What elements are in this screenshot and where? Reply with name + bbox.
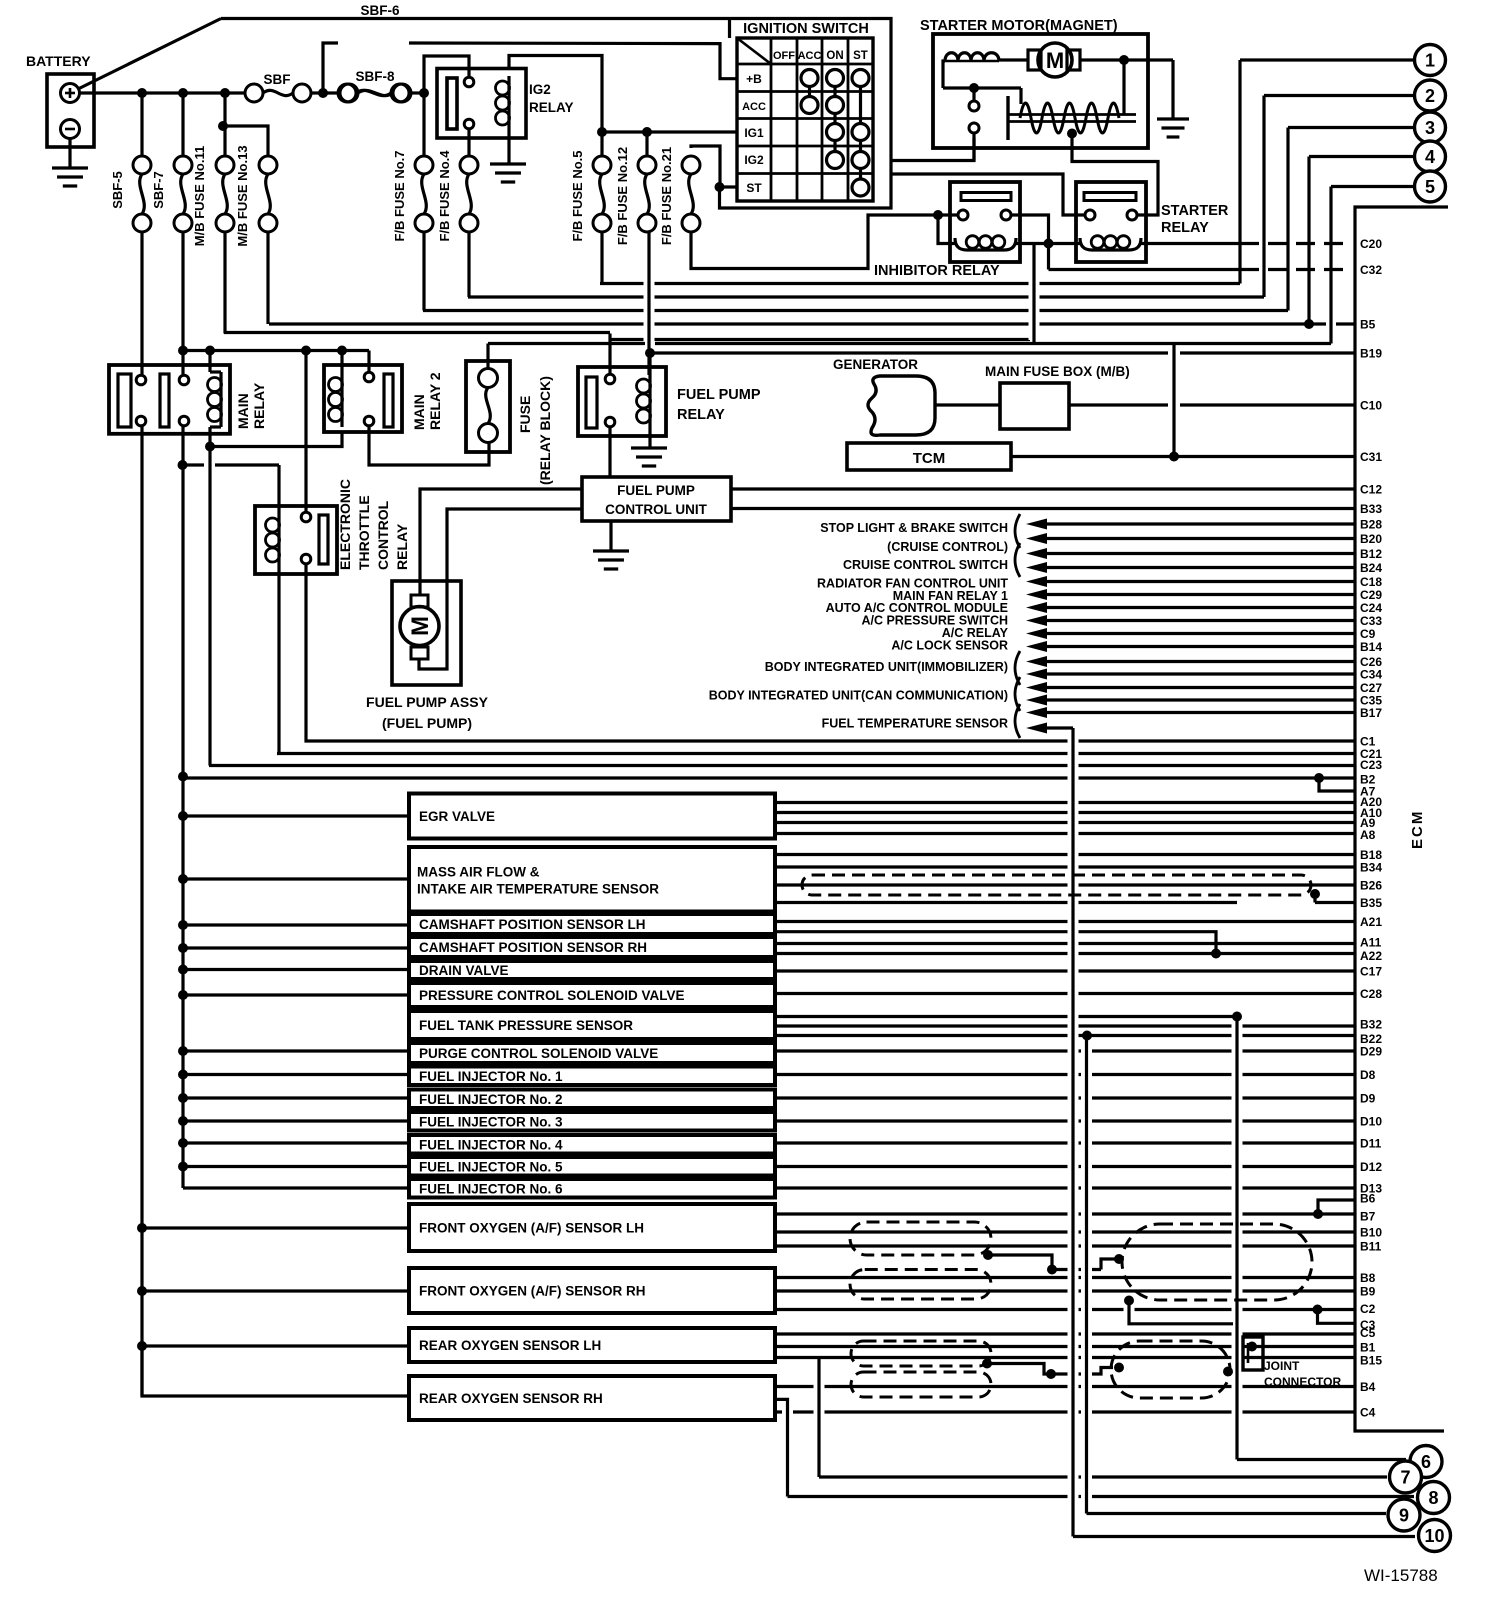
svg-text:SBF: SBF bbox=[264, 72, 291, 87]
svg-text:(CRUISE CONTROL): (CRUISE CONTROL) bbox=[887, 540, 1008, 554]
svg-text:B5: B5 bbox=[1360, 318, 1376, 332]
svg-text:C2: C2 bbox=[1360, 1302, 1376, 1316]
svg-text:C17: C17 bbox=[1360, 965, 1382, 979]
svg-text:6: 6 bbox=[1421, 1452, 1431, 1472]
main relay contact pins bbox=[136, 375, 146, 385]
svg-text:M: M bbox=[1046, 48, 1064, 73]
shield drain jumper rear oxygen ovals bbox=[987, 1364, 1051, 1375]
wire circled 8 line from rear oxygen RH bbox=[788, 1495, 1415, 1498]
wire C17 line from drain valve bbox=[775, 969, 1355, 972]
svg-text:IG2: IG2 bbox=[744, 153, 764, 167]
node circled 10 bbox=[1419, 1520, 1451, 1552]
fuse SBF-6 bbox=[323, 43, 338, 93]
wire front oxygen RH feed bbox=[142, 1289, 409, 1292]
wire D12 line from fuel injector No.5 bbox=[775, 1165, 1355, 1168]
wire EGR valve feed bbox=[183, 814, 409, 817]
svg-text:FUEL TEMPERATURE SENSOR: FUEL TEMPERATURE SENSOR bbox=[822, 717, 1008, 731]
main relay 2 coil bbox=[340, 372, 343, 427]
svg-text:RELAY: RELAY bbox=[1161, 220, 1209, 236]
relay fuel pump relay box bbox=[578, 367, 666, 436]
wire C2 to C3 jog bbox=[1318, 1310, 1356, 1324]
wire D11 line from fuel injector No.4 bbox=[775, 1141, 1355, 1144]
wire main relay 2 right contact riser bbox=[367, 351, 370, 373]
wire fuel pump relay contact feed from main relay net bbox=[608, 334, 611, 375]
wire main relay feed line from M/B fuse No.11 bbox=[224, 331, 610, 334]
svg-text:B26: B26 bbox=[1360, 879, 1382, 893]
svg-text:C31: C31 bbox=[1360, 450, 1382, 464]
wire MAF feed bbox=[183, 877, 409, 880]
fuse SBF-7 bbox=[181, 93, 184, 156]
ETC relay contact pins bbox=[301, 512, 311, 522]
IG2 relay coil bbox=[507, 76, 510, 130]
wire B5 bus line from M/B fuse No.13 bbox=[269, 322, 1326, 325]
wire fuel injector No.5 feed bbox=[183, 1165, 409, 1168]
box fuel injector No.2 bbox=[409, 1090, 775, 1109]
svg-text:B17: B17 bbox=[1360, 706, 1382, 720]
wire fuel pump relay contact to fuel pump control unit bbox=[608, 427, 611, 478]
wire fuel tank pressure sensor top line to shield drain vertical bbox=[775, 1015, 1237, 1018]
svg-text:C5: C5 bbox=[1360, 1326, 1376, 1340]
shield dashed oval rear oxygen upper bbox=[851, 1341, 991, 1366]
wire B2 to A7 jog bbox=[1319, 778, 1355, 791]
shield drain jumper front oxygen ovals bbox=[988, 1255, 1052, 1270]
svg-text:C23: C23 bbox=[1360, 758, 1382, 772]
box mass air flow & intake air temperature sensor bbox=[409, 847, 775, 912]
svg-text:OFF: OFF bbox=[773, 50, 795, 62]
wire B1 line from rear oxygen sensor LH bbox=[775, 1345, 1355, 1348]
svg-text:TCM: TCM bbox=[913, 450, 946, 467]
svg-text:STARTER: STARTER bbox=[1161, 203, 1229, 219]
wire long vertical B22 tap to circled 9 bbox=[1085, 1036, 1088, 1514]
svg-text:B14: B14 bbox=[1360, 640, 1382, 654]
wire fuel pump relay coil riser bbox=[648, 353, 651, 375]
wire vertical rear oxygen RH side stub to circled 8 bbox=[775, 1399, 788, 1496]
wire C12 line fuel pump control unit to ECM bbox=[731, 487, 1355, 490]
starter relay coil bbox=[1080, 238, 1141, 250]
starter motor box bbox=[933, 34, 1148, 148]
svg-text:RELAY: RELAY bbox=[677, 407, 725, 423]
fuse F/B fuse No.12 bbox=[645, 132, 648, 156]
wire inhibitor coil to starter relay coil bbox=[1016, 242, 1080, 245]
wire rear oxygen LH feed bbox=[142, 1344, 409, 1347]
fuel pump relay contact bar bbox=[586, 377, 597, 428]
wire IG1 feed from IG2 relay coil bbox=[509, 56, 602, 133]
svg-text:B9: B9 bbox=[1360, 1285, 1376, 1299]
svg-text:B8: B8 bbox=[1360, 1271, 1376, 1285]
svg-text:F/B FUSE No.5: F/B FUSE No.5 bbox=[570, 150, 585, 241]
wire C20 dashed to ECM bbox=[1240, 242, 1352, 245]
main relay 2 contact pins bbox=[364, 372, 374, 382]
wire C10 line generator to ECM bbox=[1069, 403, 1168, 406]
svg-text:CRUISE CONTROL SWITCH: CRUISE CONTROL SWITCH bbox=[843, 558, 1008, 572]
wire main relay coil bottom to C23 rail bbox=[208, 427, 211, 766]
svg-text:FUEL INJECTOR No. 6: FUEL INJECTOR No. 6 bbox=[419, 1181, 563, 1196]
svg-text:D8: D8 bbox=[1360, 1068, 1376, 1082]
wire B7 to B6 jog bbox=[1318, 1200, 1355, 1214]
wire front shield drain to C3 segment bbox=[1129, 1301, 1233, 1324]
svg-text:+B: +B bbox=[746, 72, 762, 86]
box fuel injector No.3 bbox=[409, 1112, 775, 1131]
fuse F/B fuse No.21 bbox=[691, 146, 720, 187]
wire diagonal battery to ignition switch loop bbox=[78, 19, 221, 90]
wire F/B fuse No.21 to inhibitor relay bbox=[691, 215, 938, 269]
svg-text:SBF-7: SBF-7 bbox=[151, 171, 166, 209]
wire main relay 2 coil riser bbox=[340, 351, 343, 373]
svg-text:D29: D29 bbox=[1360, 1045, 1382, 1059]
svg-text:FRONT OXYGEN (A/F) SENSOR LH: FRONT OXYGEN (A/F) SENSOR LH bbox=[419, 1221, 644, 1236]
wire A8 line from EGR valve bbox=[775, 832, 1355, 835]
wire fuse relay block top to circled 5 and TCM drop bbox=[488, 342, 645, 345]
wire C1 line from electronic throttle control relay contact bbox=[307, 739, 1355, 742]
wire F/B fuse No.7 down to bus bbox=[422, 232, 425, 311]
svg-text:C24: C24 bbox=[1360, 601, 1382, 615]
svg-text:C29: C29 bbox=[1360, 588, 1382, 602]
fuel pump relay contact pins bbox=[605, 374, 615, 384]
fuse SBF bbox=[245, 84, 263, 102]
shield dashed oval rear oxygen right group bbox=[1111, 1341, 1230, 1398]
wire fuel injector No.6 feed bbox=[183, 1186, 409, 1189]
wire to circled 4 bbox=[1309, 155, 1413, 158]
wire B33 line fuel pump control unit to ECM bbox=[731, 507, 1355, 510]
wire main relay coil jumper to main relay 2 coil bbox=[210, 432, 342, 447]
wire inhibitor right contact to C32 net bbox=[1011, 215, 1049, 270]
battery bbox=[47, 74, 94, 147]
svg-text:IG2: IG2 bbox=[529, 82, 551, 97]
wire bus line to circled 1 from F/B fuse No.5 bbox=[600, 282, 1240, 285]
svg-text:CAMSHAFT POSITION SENSOR RH: CAMSHAFT POSITION SENSOR RH bbox=[419, 940, 647, 955]
wire ignition loop branch to starter relay contact bbox=[891, 174, 1085, 215]
wire B2 line from main relay contact rail bbox=[183, 776, 1355, 779]
svg-text:F/B FUSE No.21: F/B FUSE No.21 bbox=[659, 147, 674, 245]
main fuse box (M/B) bbox=[1000, 383, 1069, 429]
wire circled 9 horizontal bbox=[1087, 1512, 1387, 1515]
box fuel injector No.4 bbox=[409, 1135, 775, 1154]
svg-text:1: 1 bbox=[1425, 51, 1435, 71]
wire battery positive main line bbox=[79, 91, 245, 94]
box rear oxygen sensor LH bbox=[409, 1328, 775, 1362]
wire A11 line from camshaft position sensor RH bbox=[775, 942, 1355, 945]
inhibitor relay contact bar bbox=[961, 193, 1011, 201]
wire long vertical shield chain B35 to circled 6 bbox=[1235, 1017, 1238, 1460]
ground battery bbox=[68, 139, 71, 169]
wire circled 7 line from rear oxygen LH B15 tap bbox=[819, 1475, 1387, 1478]
relay starter relay box bbox=[1076, 182, 1146, 262]
svg-text:CONNECTOR: CONNECTOR bbox=[1264, 1375, 1341, 1389]
box purge control solenoid valve bbox=[409, 1043, 775, 1063]
svg-text:BODY INTEGRATED UNIT(IMMOBILIZ: BODY INTEGRATED UNIT(IMMOBILIZER) bbox=[765, 660, 1008, 674]
box pressure control solenoid valve bbox=[409, 983, 775, 1007]
relay inhibitor relay box bbox=[950, 182, 1020, 262]
wire ETC coil bottom to C21 bbox=[277, 566, 280, 754]
svg-text:B15: B15 bbox=[1360, 1354, 1382, 1368]
wire main relay right contact down bbox=[181, 426, 184, 1189]
wire starter relay coil to C20 bbox=[1141, 242, 1240, 245]
svg-text:SBF-8: SBF-8 bbox=[355, 69, 394, 84]
fuel pump control unit box bbox=[582, 477, 731, 521]
generator bbox=[868, 376, 935, 435]
svg-text:GENERATOR: GENERATOR bbox=[833, 357, 918, 372]
svg-text:D11: D11 bbox=[1360, 1137, 1382, 1151]
wire starter motor to ground bbox=[1080, 58, 1173, 61]
wire starter switch feed bbox=[943, 86, 1021, 89]
svg-text:FUEL PUMP: FUEL PUMP bbox=[677, 387, 761, 403]
svg-text:C18: C18 bbox=[1360, 575, 1382, 589]
svg-text:ACC: ACC bbox=[798, 50, 822, 62]
wire C4 line from rear oxygen sensor RH bbox=[775, 1410, 1355, 1413]
wire fuel injector No.2 feed bbox=[183, 1096, 409, 1099]
wire main relay left contact down to oxygen rail bbox=[140, 426, 143, 1397]
svg-text:A11: A11 bbox=[1360, 936, 1382, 950]
box drain valve bbox=[409, 961, 775, 979]
svg-text:B35: B35 bbox=[1360, 896, 1382, 910]
wire SBF-8 to IG2 relay contact bbox=[411, 91, 424, 94]
wire generator to main fuse box bbox=[935, 403, 1000, 406]
svg-text:A22: A22 bbox=[1360, 949, 1382, 963]
svg-text:B34: B34 bbox=[1360, 861, 1382, 875]
inhibitor relay contact pins bbox=[958, 210, 968, 220]
wire ignition switch outer loop bbox=[221, 19, 891, 209]
wire SBF-6 to ignition +B bbox=[409, 43, 737, 79]
wire ETC relay contact riser bbox=[304, 351, 307, 514]
svg-text:A8: A8 bbox=[1360, 828, 1376, 842]
svg-text:B6: B6 bbox=[1360, 1192, 1376, 1206]
svg-text:B24: B24 bbox=[1360, 561, 1382, 575]
fuse M/B fuse No.13 bbox=[223, 126, 268, 156]
wire B19 line from F/B fuse No.12 junction bbox=[650, 351, 1168, 354]
svg-text:FUEL INJECTOR No. 4: FUEL INJECTOR No. 4 bbox=[419, 1137, 563, 1152]
fuel pump relay coil bbox=[648, 375, 651, 427]
node circled 1 bbox=[1415, 45, 1446, 76]
wire M/B fuse No.11 down to bus bbox=[223, 232, 226, 334]
svg-text:ECM: ECM bbox=[1409, 810, 1426, 849]
starter motor M bbox=[1028, 50, 1041, 70]
wire M/B fuse No.13 down to B5 bus bbox=[266, 232, 269, 324]
wire drain valve feed bbox=[183, 968, 409, 971]
svg-text:D12: D12 bbox=[1360, 1160, 1382, 1174]
svg-text:B10: B10 bbox=[1360, 1226, 1382, 1240]
wire to circled 1 bbox=[1240, 58, 1413, 61]
svg-text:FUEL INJECTOR No. 5: FUEL INJECTOR No. 5 bbox=[419, 1159, 563, 1174]
svg-text:B19: B19 bbox=[1360, 347, 1382, 361]
node circled 5 bbox=[1415, 171, 1446, 202]
relay electronic throttle control relay box bbox=[255, 506, 337, 574]
svg-text:CAMSHAFT POSITION SENSOR LH: CAMSHAFT POSITION SENSOR LH bbox=[419, 917, 646, 932]
svg-text:SBF-6: SBF-6 bbox=[360, 3, 399, 18]
wire circled 10 horizontal bbox=[1073, 1535, 1415, 1538]
svg-text:C32: C32 bbox=[1360, 263, 1382, 277]
node circled 2 bbox=[1415, 80, 1446, 111]
box camshaft position sensor LH bbox=[409, 914, 775, 934]
starter pinion shaft bbox=[1006, 96, 1009, 140]
wire vertical F/B fuse No.12 to fuel pump relay coil bbox=[647, 232, 650, 375]
svg-text:MAIN FUSE BOX (M/B): MAIN FUSE BOX (M/B) bbox=[985, 364, 1130, 379]
svg-text:C9: C9 bbox=[1360, 627, 1376, 641]
svg-text:FRONT OXYGEN (A/F) SENSOR RH: FRONT OXYGEN (A/F) SENSOR RH bbox=[419, 1284, 646, 1299]
svg-text:C28: C28 bbox=[1360, 987, 1382, 1001]
wire camshaft RH feed bbox=[183, 946, 409, 949]
svg-text:F/B FUSE No.12: F/B FUSE No.12 bbox=[615, 147, 630, 245]
IG2 relay contact pins bbox=[464, 77, 474, 87]
wire B4 line from rear oxygen sensor RH bbox=[775, 1385, 1355, 1388]
wire D9 line from fuel injector No.2 bbox=[775, 1096, 1355, 1099]
svg-text:IG1: IG1 bbox=[744, 126, 764, 140]
relay main relay 2 box bbox=[324, 365, 402, 432]
svg-text:B28: B28 bbox=[1360, 518, 1382, 532]
svg-text:D9: D9 bbox=[1360, 1092, 1376, 1106]
svg-text:CONTROL UNIT: CONTROL UNIT bbox=[605, 502, 707, 517]
box fuel injector No.6 bbox=[409, 1179, 775, 1198]
wire fuse relay block top riser bbox=[486, 344, 489, 369]
wire starter coil left down bbox=[943, 61, 945, 88]
IG2 relay coil ground bbox=[507, 130, 510, 164]
svg-text:5: 5 bbox=[1425, 177, 1435, 197]
wire A22 line from camshaft position sensor RH bbox=[775, 952, 1355, 955]
node circled 6 bbox=[1410, 1446, 1442, 1478]
svg-text:3: 3 bbox=[1425, 118, 1435, 138]
node circled 4 bbox=[1415, 141, 1446, 172]
shield dashed oval front oxygen LH pair bbox=[850, 1222, 991, 1255]
wire main relay feed line with taps bbox=[183, 349, 369, 352]
node circled 3 bbox=[1415, 112, 1446, 143]
wire D13 line from fuel injector No.6 bbox=[775, 1186, 1355, 1189]
wire B35 line from mass air flow sensor to shield drop bbox=[775, 901, 1237, 904]
wire ETC relay coil feed bbox=[183, 463, 205, 466]
svg-text:MAIN: MAIN bbox=[411, 394, 427, 430]
svg-text:C20: C20 bbox=[1360, 237, 1382, 251]
svg-text:INTAKE AIR TEMPERATURE SENSOR: INTAKE AIR TEMPERATURE SENSOR bbox=[417, 881, 659, 896]
starter motor field coil bbox=[945, 53, 999, 61]
inhibitor relay coil bbox=[955, 238, 1016, 250]
node circled 7 bbox=[1390, 1461, 1422, 1493]
wire B34 line from mass air flow sensor bbox=[775, 865, 1355, 868]
wire C32 dashed to ECM bbox=[1049, 268, 1241, 271]
wire bus line to circled 2 from F/B fuse No.4 bbox=[468, 295, 1264, 298]
svg-text:SBF-5: SBF-5 bbox=[110, 171, 125, 209]
wire B15 line from rear oxygen sensor LH bbox=[775, 1356, 1355, 1359]
svg-text:FUEL INJECTOR No. 1: FUEL INJECTOR No. 1 bbox=[419, 1069, 563, 1084]
svg-text:WI-15788: WI-15788 bbox=[1364, 1566, 1438, 1585]
wire main relay risers bbox=[181, 351, 184, 376]
fuse F/B fuse No.4 bbox=[467, 128, 470, 156]
svg-text:DRAIN VALVE: DRAIN VALVE bbox=[419, 963, 509, 978]
wire B18 line from mass air flow sensor bbox=[775, 853, 1355, 856]
wire SBF-7 rail down to relay feed line bbox=[181, 232, 184, 351]
svg-text:CONTROL: CONTROL bbox=[375, 500, 391, 570]
wire long vertical fuel temperature sensor to circled 10 bbox=[1071, 728, 1074, 1537]
svg-text:B12: B12 bbox=[1360, 547, 1382, 561]
wire C23 line from main relay coil bbox=[209, 764, 1355, 767]
fuse relay block box bbox=[466, 361, 510, 452]
wire C28 line from pressure control solenoid valve bbox=[775, 992, 1355, 995]
svg-text:B1: B1 bbox=[1360, 1341, 1376, 1355]
svg-text:BODY INTEGRATED UNIT(CAN COMMU: BODY INTEGRATED UNIT(CAN COMMUNICATION) bbox=[709, 689, 1008, 703]
wire F/B fuse No.4 down to bus bbox=[467, 232, 470, 297]
svg-text:B4: B4 bbox=[1360, 1380, 1376, 1394]
fuse F/B fuse No.5 bbox=[600, 132, 603, 156]
starter magnet helix bbox=[1020, 103, 1119, 133]
wire B7 line from front oxygen sensor LH bbox=[775, 1212, 1355, 1215]
fuse SBF-5 bbox=[140, 93, 143, 156]
wire D29 line from purge control solenoid valve bbox=[775, 1049, 1355, 1052]
relay main relay box bbox=[109, 365, 230, 434]
fuse M/B fuse No.11 bbox=[223, 93, 226, 156]
box EGR valve bbox=[409, 794, 775, 839]
wire B10 line from front oxygen sensor LH bbox=[775, 1230, 1355, 1233]
wire A9 line from EGR valve bbox=[775, 821, 1355, 824]
wire purge control valve feed bbox=[183, 1049, 409, 1052]
fuse F/B fuse No.7 bbox=[422, 93, 425, 156]
svg-text:A/C LOCK SENSOR: A/C LOCK SENSOR bbox=[891, 639, 1008, 653]
svg-text:(FUEL PUMP): (FUEL PUMP) bbox=[382, 715, 472, 731]
wire C5 line from rear oxygen sensor LH bbox=[775, 1332, 1355, 1335]
svg-text:2: 2 bbox=[1425, 86, 1435, 106]
wire pressure control valve feed bbox=[183, 993, 409, 996]
node circled 8 bbox=[1418, 1482, 1450, 1514]
wire front oxygen LH feed bbox=[142, 1226, 409, 1229]
ETC relay coil bbox=[277, 514, 280, 566]
svg-text:10: 10 bbox=[1424, 1526, 1444, 1546]
svg-text:F/B FUSE No.4: F/B FUSE No.4 bbox=[437, 150, 452, 242]
svg-text:FUSE: FUSE bbox=[517, 396, 533, 433]
wire ignition loop branch to starter motor switch bbox=[891, 138, 974, 161]
wire camshaft LH feed bbox=[183, 923, 409, 926]
wire D8 line from fuel injector No.1 bbox=[775, 1073, 1355, 1076]
wire B8 line from front oxygen sensor RH bbox=[775, 1276, 1355, 1279]
svg-text:BATTERY: BATTERY bbox=[26, 53, 91, 69]
svg-text:STOP LIGHT & BRAKE SWITCH: STOP LIGHT & BRAKE SWITCH bbox=[820, 521, 1008, 535]
box rear oxygen sensor RH bbox=[409, 1376, 775, 1420]
svg-text:PURGE CONTROL SOLENOID VALVE: PURGE CONTROL SOLENOID VALVE bbox=[419, 1046, 658, 1061]
shield dashed oval front oxygen right group bbox=[1122, 1224, 1312, 1300]
shield dashed oval rear oxygen lower bbox=[851, 1372, 991, 1397]
svg-text:C33: C33 bbox=[1360, 614, 1382, 628]
svg-text:M/B FUSE No.13: M/B FUSE No.13 bbox=[235, 145, 250, 246]
relay IG2 relay box bbox=[437, 69, 526, 139]
wire fuel pump control unit to fuel pump lower bbox=[419, 509, 582, 669]
wire D10 line from fuel injector No.3 bbox=[775, 1119, 1355, 1122]
svg-text:ST: ST bbox=[746, 181, 762, 195]
svg-text:RELAY: RELAY bbox=[251, 382, 267, 429]
box fuel tank pressure sensor bbox=[409, 1011, 775, 1039]
svg-text:B7: B7 bbox=[1360, 1210, 1376, 1224]
svg-text:FUEL INJECTOR No. 2: FUEL INJECTOR No. 2 bbox=[419, 1092, 563, 1107]
wire C21 line from electronic throttle control relay coil bbox=[277, 752, 1355, 755]
starter switch contacts bbox=[969, 101, 979, 111]
svg-text:C12: C12 bbox=[1360, 483, 1382, 497]
svg-text:ACC: ACC bbox=[742, 101, 766, 113]
crossing gaps bbox=[644, 236, 655, 361]
svg-text:JOINT: JOINT bbox=[1264, 1359, 1300, 1373]
wire main relay 2 contact to fuse relay block bbox=[369, 426, 489, 466]
ETC relay contact bar bbox=[319, 515, 328, 564]
svg-text:C4: C4 bbox=[1360, 1406, 1376, 1420]
svg-text:INHIBITOR RELAY: INHIBITOR RELAY bbox=[874, 263, 1000, 279]
ignition switch contact circles bbox=[801, 70, 818, 87]
svg-text:D10: D10 bbox=[1360, 1115, 1382, 1129]
svg-text:FUEL INJECTOR No. 3: FUEL INJECTOR No. 3 bbox=[419, 1114, 563, 1129]
svg-text:C34: C34 bbox=[1360, 668, 1382, 682]
box fuel injector No.1 bbox=[409, 1067, 775, 1086]
wire to circled 3 bbox=[1288, 126, 1413, 129]
main relay coil bbox=[219, 372, 222, 427]
wire helix to starter relay contact bbox=[1072, 134, 1158, 216]
wire fuel injector No.4 feed bbox=[183, 1141, 409, 1144]
svg-text:RELAY 2: RELAY 2 bbox=[427, 372, 443, 430]
wire B32 line from fuel tank pressure sensor bbox=[775, 1024, 1355, 1027]
wire fuel injector No.3 feed bbox=[183, 1119, 409, 1122]
wire B9 line from front oxygen sensor RH bbox=[775, 1289, 1355, 1292]
wire fuel injector No.1 feed bbox=[183, 1073, 409, 1076]
